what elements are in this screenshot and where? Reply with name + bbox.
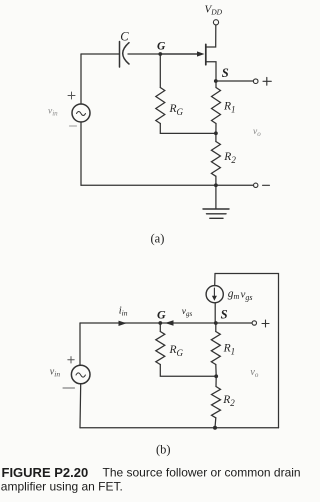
svg-text:S: S [221,308,228,322]
svg-text:vgs: vgs [182,307,193,318]
svg-text:R1: R1 [223,100,236,114]
svg-text:R2: R2 [222,394,235,408]
svg-text:amplifier using an FET.: amplifier using an FET. [1,480,123,494]
svg-text:G: G [157,307,166,321]
svg-text:FIGURE P2.20: FIGURE P2.20 [2,465,89,480]
svg-text:S: S [222,66,229,80]
svg-text:G: G [157,40,166,52]
svg-text:vo: vo [250,367,258,379]
svg-text:(a): (a) [151,232,165,246]
svg-text:iin: iin [119,305,128,317]
svg-text:vo: vo [253,127,261,138]
svg-text:R1: R1 [223,343,236,357]
svg-text:RG: RG [169,103,184,117]
svg-text:RG: RG [169,344,184,358]
svg-text:The source follower or common: The source follower or common drain [103,466,301,480]
svg-text:R2: R2 [223,151,236,165]
svg-text:C: C [120,30,129,44]
svg-text:VDD: VDD [205,4,223,17]
svg-text:gmvgs: gmvgs [228,288,253,302]
svg-text:vin: vin [48,107,58,118]
svg-text:vin: vin [50,367,61,379]
svg-text:(b): (b) [156,443,171,457]
